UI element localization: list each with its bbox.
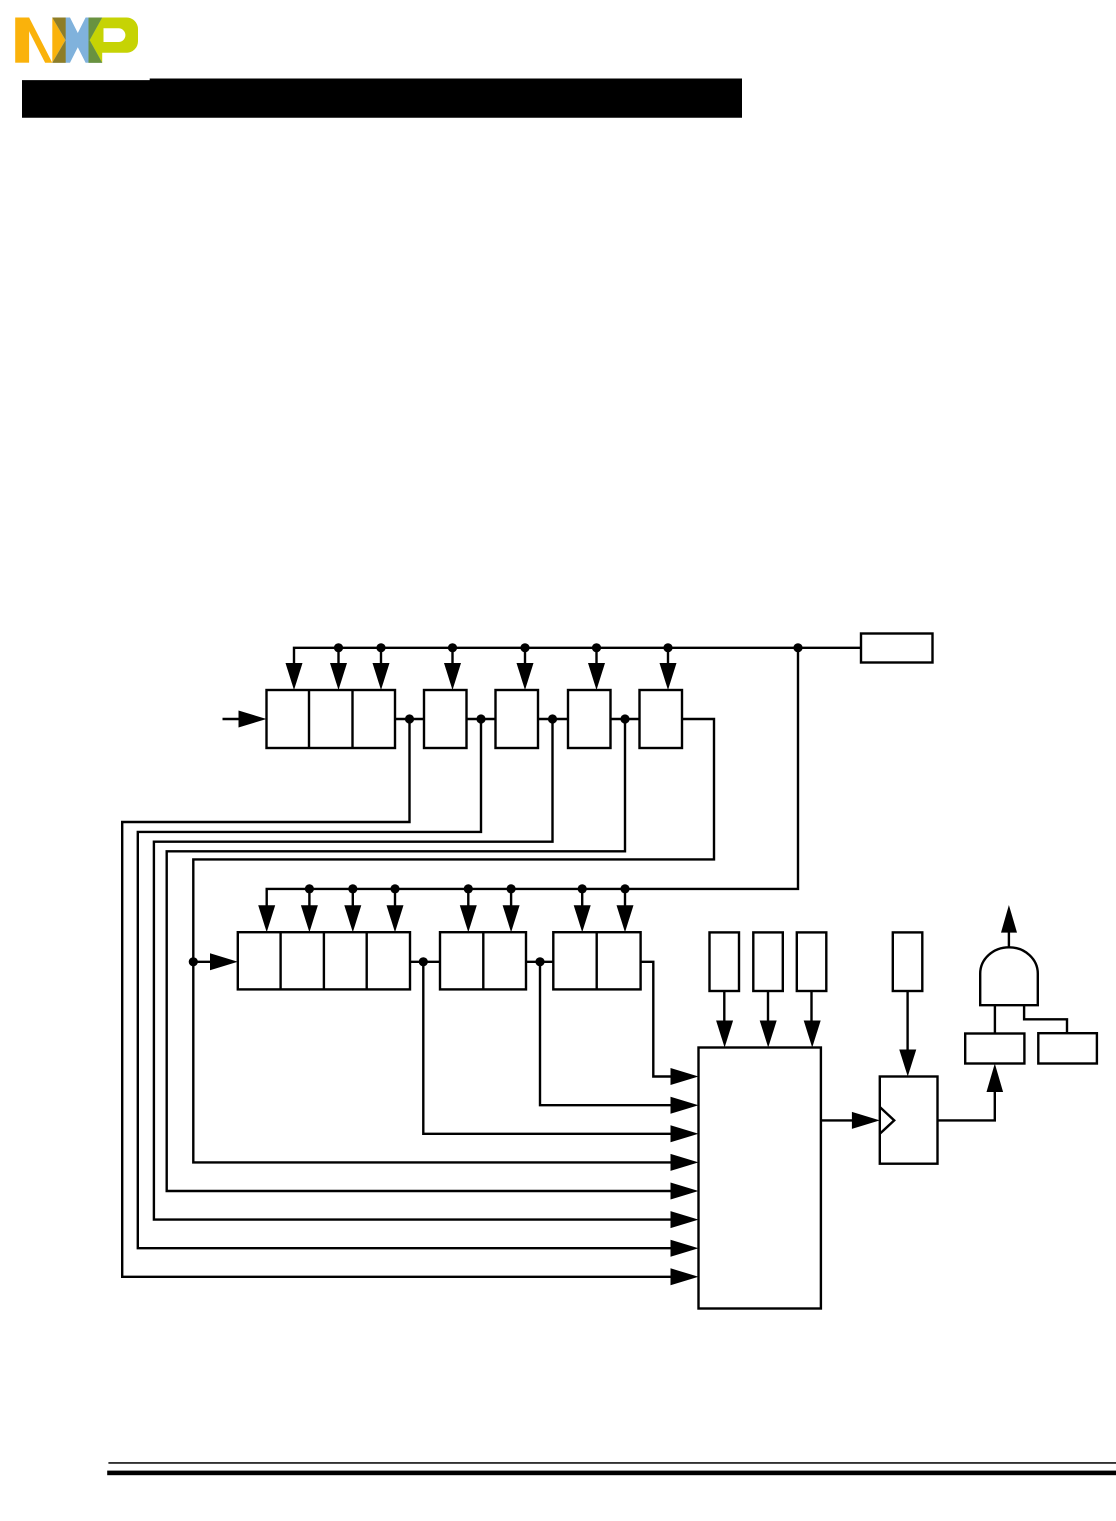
row1 register box1 (3 cells): [267, 690, 396, 748]
wire row1 box4-box5: [610, 718, 640, 720]
and gate left stub: [994, 1005, 996, 1033]
flipflop clock chevron: [880, 1107, 894, 1134]
flipflop output wire: [938, 1090, 995, 1120]
P counter: [104, 28, 126, 42]
arrowhead mux to flipflop: [852, 1112, 880, 1129]
select box B: [753, 932, 783, 991]
feedback wire tap3: [154, 719, 674, 1220]
and gate output stub: [1008, 931, 1010, 947]
junction dots row2 line: [305, 884, 314, 893]
output register box2: [1038, 1033, 1097, 1063]
select box A: [710, 932, 740, 991]
and gate output arrowhead: [1001, 905, 1017, 933]
row2 clock line: [267, 648, 798, 908]
feedback wire tap5: [193, 719, 714, 1162]
N-X overlap top: [52, 18, 65, 41]
N left bar: [15, 18, 29, 63]
row2 register group2 (2 cells): [440, 932, 526, 989]
junction dots row1 shift wires: [405, 714, 414, 723]
arrow shafts into row1 cells: [339, 648, 669, 666]
row1 register box3: [496, 690, 539, 748]
wire row2 g2-g3: [526, 961, 553, 963]
footer thick rule: [107, 1471, 1116, 1476]
arrowheads select boxes to mux: [716, 1021, 733, 1048]
shafts small boxes to mux: [724, 991, 811, 1024]
footer thin rule: [108, 1462, 1116, 1464]
wire row2 g1-g2: [410, 961, 440, 963]
row2 tap wire a: [423, 962, 674, 1134]
output register box1: [965, 1034, 1024, 1064]
row2 tap wire c: [641, 962, 674, 1077]
junction dots row1 line: [334, 643, 343, 652]
feedback wire tap2: [138, 719, 674, 1248]
row2 input arrowhead: [210, 953, 238, 970]
mux input arrowheads: [671, 1068, 699, 1085]
wire row1 box1-box2: [395, 718, 424, 720]
and gate right stub: [1024, 1005, 1067, 1033]
N right bar: [52, 18, 65, 63]
N diagonal: [22, 18, 52, 63]
row1 clock line: [294, 648, 861, 668]
arrowhead select box D to flipflop: [899, 1050, 916, 1077]
title bar (redacted black): [22, 79, 742, 118]
X-P overlap top: [89, 18, 103, 41]
row1 register box2: [424, 690, 467, 748]
arrowhead flipflop to output register: [987, 1064, 1004, 1093]
NXP logo: [15, 18, 138, 63]
row1 register box4: [568, 690, 611, 748]
select box D: [893, 932, 923, 991]
row1 input arrowhead: [239, 711, 267, 728]
X glyph: [52, 18, 102, 63]
mux to flipflop wire: [821, 1119, 854, 1121]
X-P overlap bottom: [89, 40, 103, 63]
arrow shafts into row2 cells: [309, 889, 625, 908]
arrowheads into row1 cells: [286, 663, 303, 690]
arrowheads into row2 cells: [258, 905, 275, 932]
row1 input wire: [223, 718, 241, 720]
and gate: [980, 947, 1038, 1005]
flipflop box: [880, 1077, 938, 1164]
row1 register box5: [640, 690, 683, 748]
feedback wire tap1: [122, 719, 674, 1277]
junction dots row2 shift wires: [189, 957, 198, 966]
N-X overlap bottom: [52, 40, 65, 63]
shaft small box to flipflop: [906, 991, 908, 1052]
row2 tap wire b: [540, 962, 674, 1105]
row2 input wire: [193, 961, 212, 963]
row2 register group1 (4 cells): [238, 932, 410, 989]
feedback wire tap4: [167, 719, 674, 1191]
row2 register group3 (2 cells): [553, 932, 640, 989]
P glyph: [89, 18, 139, 63]
select box C: [797, 932, 827, 991]
clock label box: [861, 634, 933, 663]
wire row1 box2-box3: [467, 718, 496, 720]
wire row1 box3-box4: [538, 718, 568, 720]
mux box: [699, 1048, 821, 1309]
